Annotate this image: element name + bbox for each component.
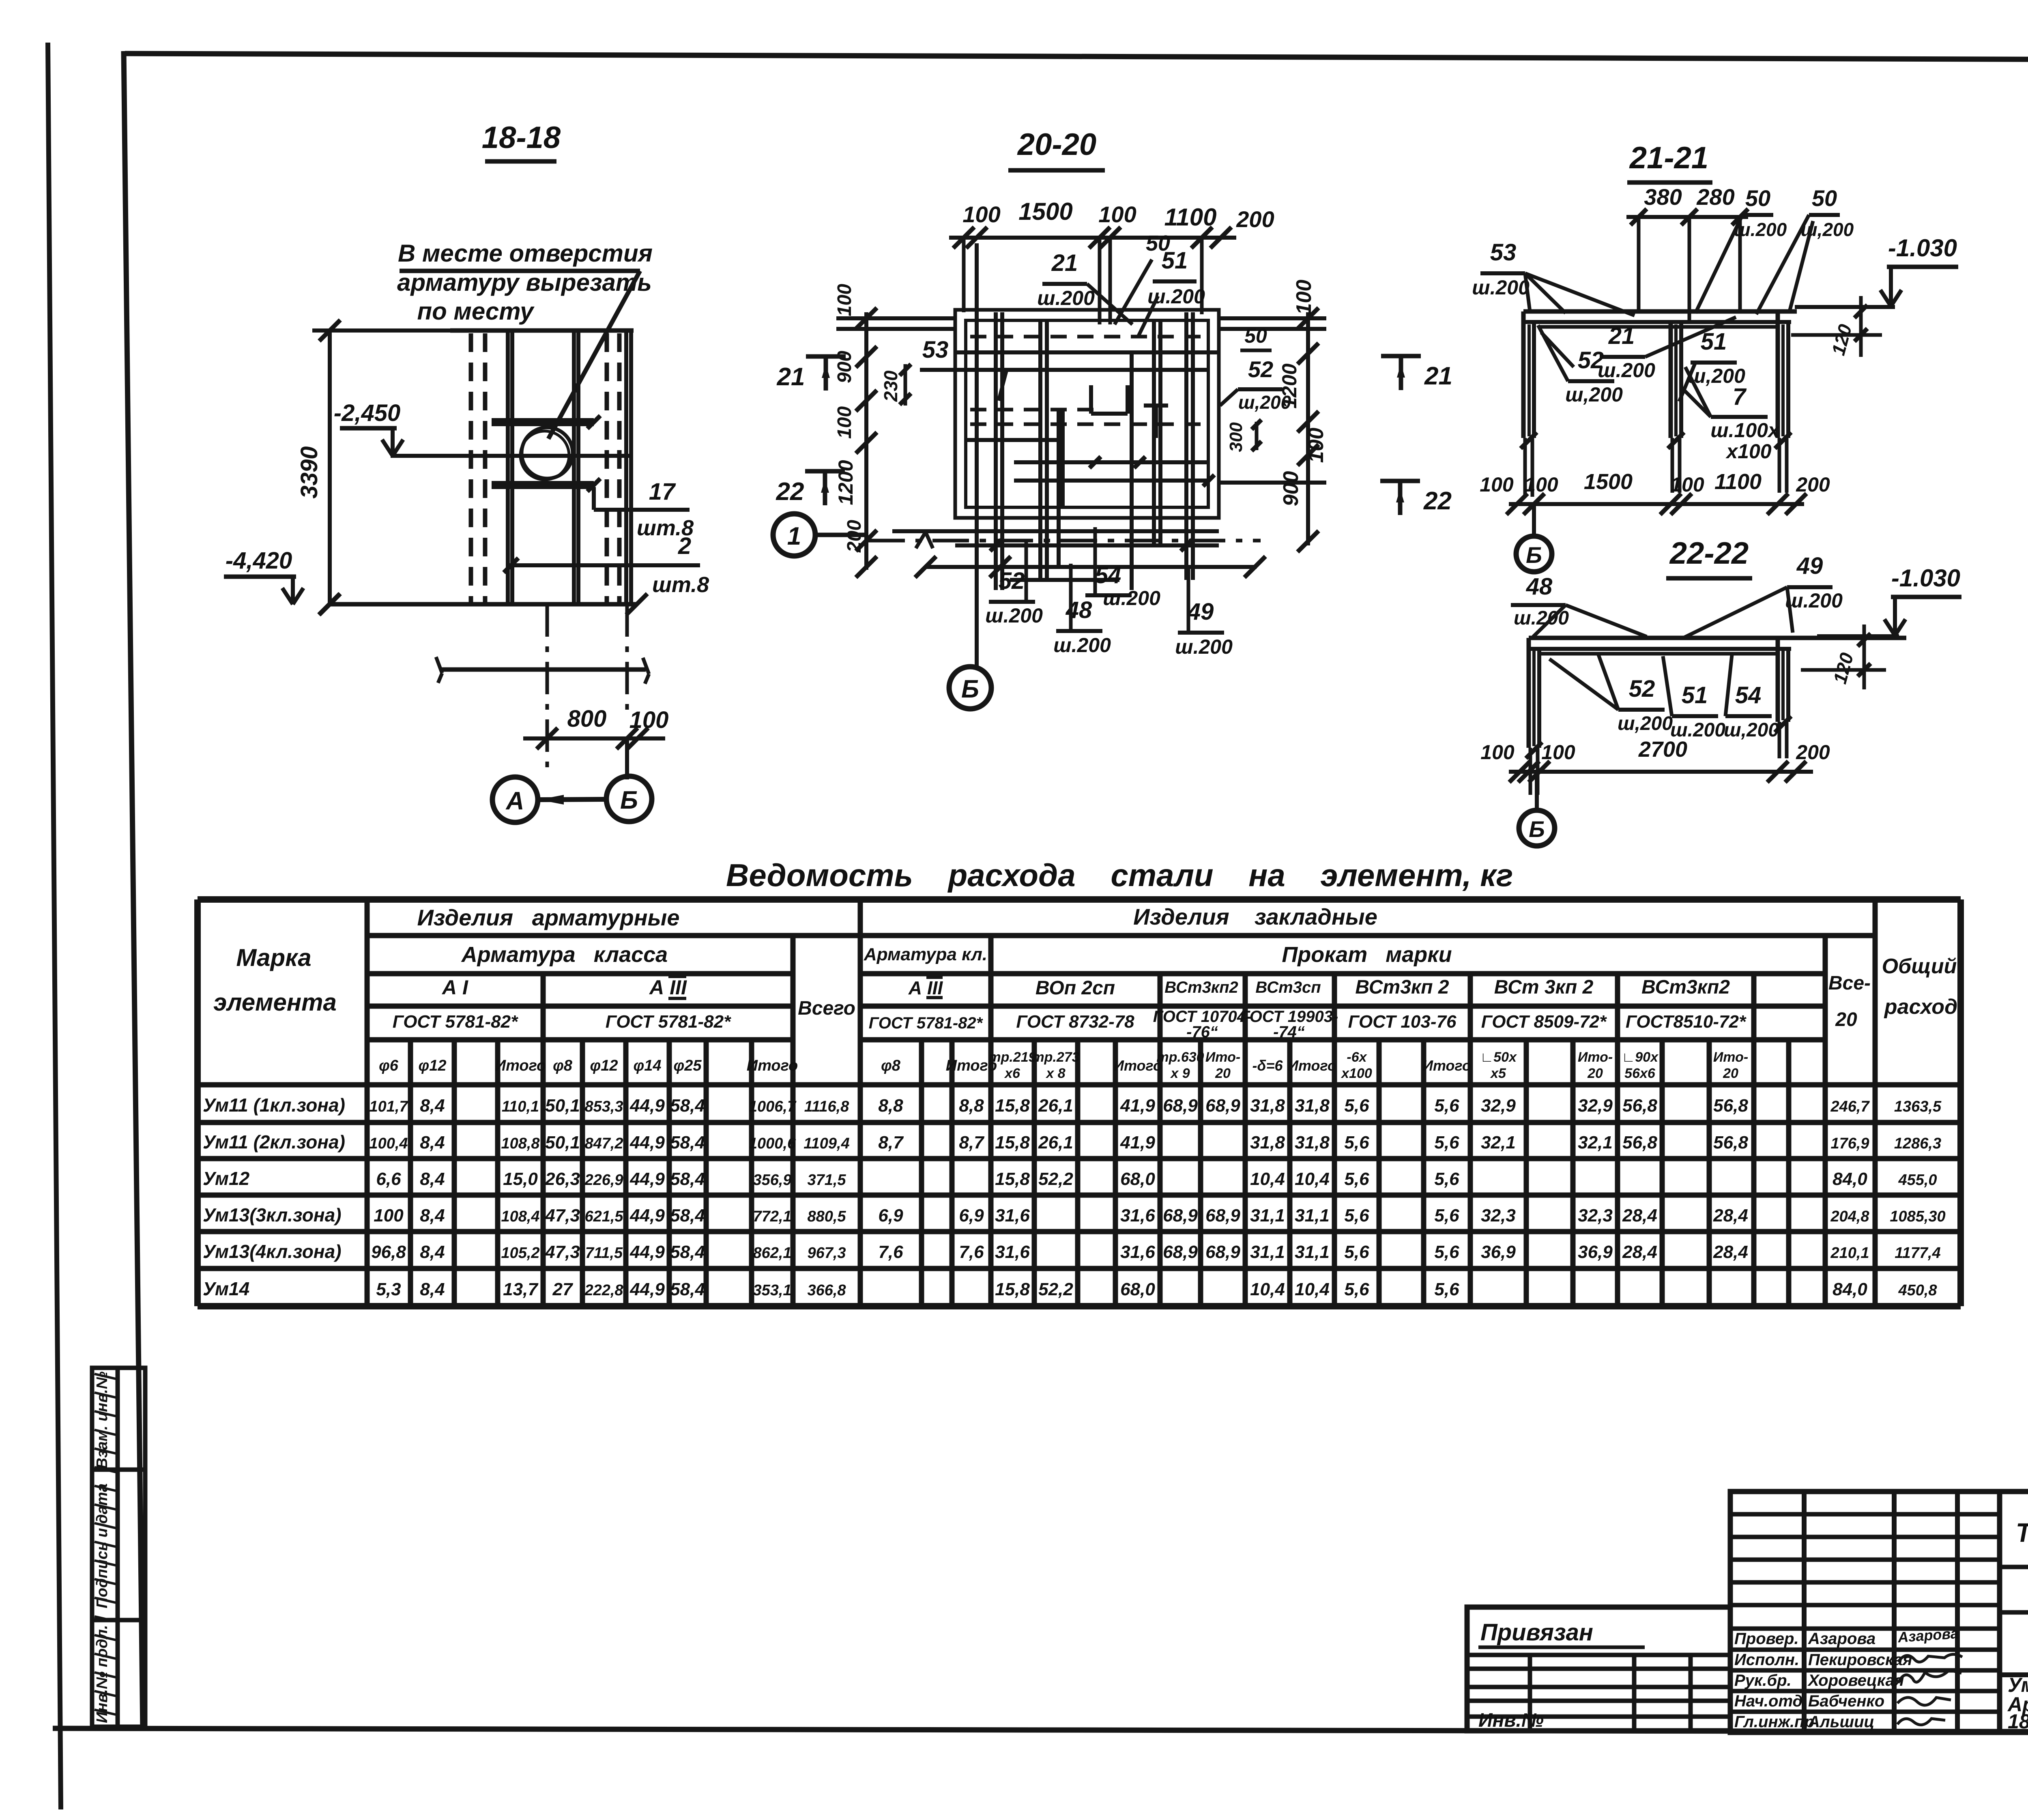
right dim line 20-20 <box>1306 312 1310 545</box>
axis 1 lead <box>815 533 868 537</box>
svg-text:ш.200: ш.200 <box>1472 276 1530 299</box>
svg-text:455,0: 455,0 <box>1898 1172 1937 1189</box>
svg-text:711,5: 711,5 <box>585 1245 623 1262</box>
svg-text:36,9: 36,9 <box>1481 1242 1516 1262</box>
svg-text:1200: 1200 <box>1278 363 1301 408</box>
svg-text:5,6: 5,6 <box>1434 1096 1459 1116</box>
svg-text:49: 49 <box>1187 599 1214 625</box>
svg-text:51: 51 <box>1682 682 1708 708</box>
svg-text:тр.630: тр.630 <box>1156 1050 1204 1065</box>
svg-text:22: 22 <box>776 478 804 506</box>
svg-text:31,6: 31,6 <box>1120 1242 1155 1262</box>
svg-text:366,8: 366,8 <box>807 1282 846 1299</box>
axis circle Б 20-20 <box>949 667 991 709</box>
svg-text:230: 230 <box>880 370 901 402</box>
svg-text:по месту: по месту <box>417 298 535 325</box>
left dim line 20-20 <box>864 312 868 570</box>
svg-text:96,8: 96,8 <box>371 1242 406 1262</box>
svg-text:7,6: 7,6 <box>959 1242 984 1262</box>
svg-text:ГОСТ 103-76: ГОСТ 103-76 <box>1348 1012 1457 1032</box>
svg-text:5,6: 5,6 <box>1434 1169 1459 1189</box>
svg-text:∟90х: ∟90х <box>1622 1050 1659 1065</box>
svg-text:Ито-: Ито- <box>1205 1050 1240 1065</box>
svg-text:222,8: 222,8 <box>584 1282 623 1299</box>
centerline below left <box>546 604 549 773</box>
rebar pair right edge <box>624 332 628 603</box>
svg-text:100: 100 <box>1541 741 1575 764</box>
svg-text:32,9: 32,9 <box>1481 1096 1516 1116</box>
tie bar upper <box>492 418 594 422</box>
svg-text:10,4: 10,4 <box>1295 1169 1330 1189</box>
svg-text:32,9: 32,9 <box>1578 1096 1613 1116</box>
svg-text:φ8: φ8 <box>881 1057 901 1074</box>
wall 18-18 dashed face left b <box>483 333 488 603</box>
svg-text:200: 200 <box>1796 741 1830 764</box>
svg-text:5,6: 5,6 <box>1344 1206 1369 1225</box>
plan band line <box>955 350 1219 354</box>
svg-text:21: 21 <box>1051 250 1078 276</box>
plan rebar h2 <box>1014 479 1209 483</box>
left stamp strip outline <box>92 1368 145 1727</box>
top ext c <box>1200 238 1204 314</box>
right small dim <box>1255 422 1259 450</box>
svg-text:20: 20 <box>1215 1066 1231 1081</box>
svg-text:Ито-: Ито- <box>1713 1050 1748 1065</box>
svg-text:8,4: 8,4 <box>420 1169 445 1189</box>
svg-text:54: 54 <box>1735 682 1762 708</box>
slab 21-21 top line <box>1523 309 1797 314</box>
wall 22-22 left pair <box>1527 638 1531 748</box>
right low line <box>1219 481 1326 485</box>
svg-text:Бабченко: Бабченко <box>1808 1692 1884 1710</box>
svg-text:105,2: 105,2 <box>501 1245 539 1262</box>
svg-text:31,1: 31,1 <box>1295 1206 1330 1225</box>
svg-text:900: 900 <box>1279 471 1303 507</box>
svg-text:68,0: 68,0 <box>1120 1169 1155 1189</box>
svg-text:6,6: 6,6 <box>376 1169 401 1189</box>
svg-text:772,1: 772,1 <box>753 1208 791 1225</box>
svg-text:48: 48 <box>1526 573 1553 600</box>
plan rebar v4 <box>1152 320 1156 543</box>
left stamp strip divider vertical <box>116 1368 120 1727</box>
svg-text:Итого: Итого <box>1422 1057 1471 1074</box>
section mark 22 right <box>1380 479 1420 483</box>
wall 22-22 right pair <box>1776 638 1780 722</box>
svg-text:φ12: φ12 <box>590 1057 618 1074</box>
title block left sub-block grid <box>1467 1607 1730 1731</box>
section mark 22 left <box>805 469 845 474</box>
svg-text:58,4: 58,4 <box>670 1206 705 1225</box>
svg-text:1: 1 <box>787 522 801 550</box>
svg-text:110,1: 110,1 <box>502 1098 539 1115</box>
wall 22-22 left stubs <box>1529 748 1532 795</box>
axis Б riser 20-20 <box>975 243 979 667</box>
svg-text:ВСт3кп2: ВСт3кп2 <box>1641 977 1730 998</box>
hole circle <box>522 427 573 479</box>
wall 21-21 mid pair <box>1669 322 1673 438</box>
svg-text:х 9: х 9 <box>1170 1066 1190 1081</box>
plan rebar v6 <box>1057 410 1061 568</box>
svg-text:Ито-: Ито- <box>1578 1050 1613 1065</box>
svg-text:31,6: 31,6 <box>1120 1206 1155 1225</box>
svg-text:50: 50 <box>1745 185 1770 211</box>
svg-text:68,9: 68,9 <box>1205 1206 1240 1225</box>
svg-text:50: 50 <box>1244 324 1267 347</box>
wall 21-21 left stubs <box>1523 438 1527 497</box>
drawing frame bottom edge <box>53 1728 2028 1732</box>
svg-text:52: 52 <box>999 568 1025 594</box>
axis Б 21-21 <box>1516 536 1552 572</box>
svg-text:Нач.отд: Нач.отд <box>1734 1692 1802 1710</box>
table data values <box>203 1095 1946 1299</box>
svg-text:-1.030: -1.030 <box>1888 234 1957 262</box>
svg-text:20: 20 <box>1587 1066 1603 1081</box>
title block role names <box>1734 1630 1912 1731</box>
svg-text:-4,420: -4,420 <box>226 547 292 574</box>
svg-text:ш.200: ш.200 <box>1103 587 1160 610</box>
svg-text:3390: 3390 <box>296 446 322 498</box>
svg-text:Общий: Общий <box>1882 955 1957 978</box>
wall 21-21 right pair <box>1776 311 1780 438</box>
svg-text:Б: Б <box>620 786 638 814</box>
svg-text:100: 100 <box>1480 741 1515 764</box>
plan top dashed <box>970 335 1204 339</box>
svg-text:х100: х100 <box>1341 1066 1372 1081</box>
svg-text:853,3: 853,3 <box>584 1098 623 1115</box>
svg-text:56,8: 56,8 <box>1622 1133 1657 1153</box>
svg-text:ш.200: ш.200 <box>1053 634 1111 657</box>
svg-text:84,0: 84,0 <box>1833 1279 1867 1299</box>
svg-text:ГОСТ 5781-82*: ГОСТ 5781-82* <box>393 1012 518 1032</box>
svg-text:44,9: 44,9 <box>629 1242 665 1262</box>
svg-text:Изделия закладные: Изделия закладные <box>1133 904 1377 929</box>
svg-text:52: 52 <box>1629 676 1655 702</box>
svg-text:10,4: 10,4 <box>1250 1279 1285 1299</box>
svg-text:Ум14: Ум14 <box>203 1278 249 1299</box>
svg-text:шт.8: шт.8 <box>652 573 709 597</box>
svg-text:44,9: 44,9 <box>629 1206 665 1225</box>
svg-text:450,8: 450,8 <box>1898 1282 1937 1299</box>
svg-text:1200: 1200 <box>834 460 857 505</box>
svg-text:7,6: 7,6 <box>878 1242 903 1262</box>
svg-text:47,3: 47,3 <box>545 1206 580 1225</box>
svg-text:φ6: φ6 <box>379 1057 399 1074</box>
axis 1 circle <box>773 514 815 556</box>
dim 380-280 line <box>1626 215 1748 219</box>
svg-text:-6х: -6х <box>1347 1050 1367 1065</box>
svg-text:Альшиц: Альшиц <box>1808 1713 1874 1731</box>
svg-text:120: 120 <box>1827 322 1856 358</box>
svg-text:х5: х5 <box>1490 1066 1506 1081</box>
break mark left <box>436 657 442 673</box>
svg-text:56,8: 56,8 <box>1713 1096 1748 1116</box>
bottom dim line 21-21 <box>1509 502 1804 506</box>
svg-text:ГОСТ 8509-72*: ГОСТ 8509-72* <box>1481 1012 1607 1032</box>
svg-text:1100: 1100 <box>1714 470 1762 494</box>
svg-text:68,0: 68,0 <box>1120 1279 1155 1299</box>
svg-text:800: 800 <box>567 706 607 732</box>
svg-text:ГОСТ 8732-78: ГОСТ 8732-78 <box>1016 1012 1134 1032</box>
svg-text:100: 100 <box>629 707 669 733</box>
svg-text:1116,8: 1116,8 <box>804 1098 849 1115</box>
svg-text:22-22: 22-22 <box>1669 536 1749 571</box>
svg-text:68,9: 68,9 <box>1163 1242 1198 1262</box>
svg-text:Исполн.: Исполн. <box>1734 1651 1799 1669</box>
svg-text:15,8: 15,8 <box>995 1096 1030 1116</box>
plan inner rect <box>966 320 1208 507</box>
svg-text:8,4: 8,4 <box>420 1096 445 1116</box>
svg-text:31,6: 31,6 <box>995 1206 1030 1225</box>
svg-text:ш.200: ш.200 <box>1037 287 1095 309</box>
svg-text:5,6: 5,6 <box>1434 1279 1459 1299</box>
svg-text:тр.219: тр.219 <box>988 1050 1036 1065</box>
plan rebar h1 <box>1014 460 1209 464</box>
svg-text:х100: х100 <box>1725 440 1771 463</box>
svg-text:52: 52 <box>1248 356 1273 382</box>
svg-text:7: 7 <box>1733 384 1747 410</box>
svg-text:50,1: 50,1 <box>545 1133 580 1153</box>
svg-text:18-18: 18-18 <box>482 120 561 155</box>
svg-text:Рук.бр.: Рук.бр. <box>1734 1672 1792 1689</box>
svg-text:31,8: 31,8 <box>1250 1133 1285 1153</box>
svg-text:Б: Б <box>1529 816 1545 842</box>
svg-text:1286,3: 1286,3 <box>1894 1135 1941 1152</box>
svg-text:300: 300 <box>1226 422 1246 452</box>
svg-text:1500: 1500 <box>1018 198 1072 225</box>
svg-text:847,2: 847,2 <box>584 1135 623 1152</box>
dim ext 380 <box>1637 217 1641 311</box>
foundation lower line <box>440 667 646 672</box>
svg-text:5,6: 5,6 <box>1434 1133 1459 1153</box>
svg-text:Итого: Итого <box>1113 1057 1162 1074</box>
svg-text:226,9: 226,9 <box>584 1172 623 1189</box>
svg-text:54: 54 <box>1095 562 1121 588</box>
svg-text:Всего: Всего <box>798 998 855 1019</box>
wall 18-18 dashed face right a <box>605 333 609 603</box>
svg-text:1006,7: 1006,7 <box>749 1098 797 1115</box>
svg-text:31,8: 31,8 <box>1295 1133 1330 1153</box>
section mark 21 right <box>1381 354 1421 358</box>
top dim line 20-20 <box>949 236 1236 240</box>
svg-text:100: 100 <box>834 284 855 316</box>
svg-text:Ум12: Ум12 <box>203 1168 250 1189</box>
svg-text:10,4: 10,4 <box>1295 1279 1330 1299</box>
plan step detail 1 <box>1089 385 1093 414</box>
wall 21-21 mid stubs <box>1671 438 1674 493</box>
svg-text:1000,6: 1000,6 <box>749 1135 796 1152</box>
wall 18-18 dashed face right b <box>617 333 622 603</box>
svg-text:Ведомость расхода стали: Ведомость расхода стали на элемент, кг <box>726 857 1513 893</box>
svg-text:56х6: 56х6 <box>1624 1066 1656 1081</box>
svg-text:φ8: φ8 <box>553 1057 573 1074</box>
svg-text:Все-: Все- <box>1828 972 1871 994</box>
svg-text:ГОСТ 5781-82*: ГОСТ 5781-82* <box>606 1012 731 1032</box>
svg-text:Изделия арматурные: Изделия арматурные <box>417 905 680 930</box>
svg-text:880,5: 880,5 <box>807 1208 846 1225</box>
svg-text:210,1: 210,1 <box>1830 1245 1869 1262</box>
svg-text:Гл.инж.пр: Гл.инж.пр <box>1734 1713 1814 1731</box>
svg-text:ш.200: ш.200 <box>1598 359 1655 382</box>
note leader diagonal <box>548 271 640 439</box>
svg-text:58,4: 58,4 <box>670 1096 705 1116</box>
note underline <box>400 269 640 273</box>
svg-text:Пекировская: Пекировская <box>1808 1651 1912 1669</box>
svg-text:53: 53 <box>922 337 949 363</box>
plan rebar v3 <box>1130 352 1134 590</box>
slab 22-22 inner <box>1541 652 1778 656</box>
svg-text:100: 100 <box>1292 280 1316 315</box>
svg-text:50,1: 50,1 <box>545 1096 580 1116</box>
svg-text:5,6: 5,6 <box>1344 1169 1369 1189</box>
svg-text:Арматура кл.: Арматура кл. <box>864 944 987 964</box>
svg-text:621,5: 621,5 <box>584 1208 623 1225</box>
svg-text:ВСт3кп2: ВСт3кп2 <box>1164 979 1238 996</box>
svg-text:ВСт 3кп 2: ВСт 3кп 2 <box>1494 977 1594 998</box>
svg-text:58,4: 58,4 <box>670 1169 705 1189</box>
level line -2450 <box>391 454 633 458</box>
svg-text:5,6: 5,6 <box>1344 1096 1369 1116</box>
plan lattice h3 <box>892 529 1219 533</box>
svg-text:371,5: 371,5 <box>807 1172 846 1189</box>
svg-text:ш,200: ш,200 <box>1565 383 1623 406</box>
svg-text:47,3: 47,3 <box>545 1242 580 1262</box>
svg-text:21: 21 <box>777 363 805 391</box>
svg-text:52,2: 52,2 <box>1038 1279 1073 1299</box>
plan lattice h4 <box>955 543 1219 547</box>
slab 21-21 bottom line <box>1523 320 1791 324</box>
svg-text:100,4: 100,4 <box>369 1135 408 1152</box>
svg-text:100: 100 <box>374 1206 404 1225</box>
wall 21-21 left pair <box>1521 311 1526 438</box>
title block signatures <box>1897 1625 1962 1725</box>
svg-text:100: 100 <box>1524 473 1558 496</box>
plan mid dashed 2 <box>970 423 1201 426</box>
svg-text:52: 52 <box>1578 347 1604 373</box>
svg-text:21: 21 <box>1424 362 1452 390</box>
svg-text:68,9: 68,9 <box>1205 1096 1240 1116</box>
top ext line a <box>962 238 966 312</box>
svg-text:862,1: 862,1 <box>753 1245 791 1262</box>
svg-text:967,3: 967,3 <box>807 1245 846 1262</box>
break tick bottom line <box>319 594 340 615</box>
slab 22-22 bottom line <box>1529 647 1791 651</box>
svg-text:280: 280 <box>1696 184 1734 210</box>
svg-text:84,0: 84,0 <box>1833 1169 1867 1189</box>
svg-text:22: 22 <box>1423 487 1452 515</box>
svg-text:Ум13(4кл.зона): Ум13(4кл.зона) <box>203 1241 342 1262</box>
plan lattice h5 <box>1010 578 1119 582</box>
svg-text:18-18÷21-21.: 18-18÷21-21. <box>2008 1710 2028 1733</box>
dim 800-100 line <box>523 736 665 740</box>
svg-text:8,4: 8,4 <box>420 1133 445 1153</box>
svg-text:х 8: х 8 <box>1045 1066 1065 1081</box>
svg-text:5,6: 5,6 <box>1344 1279 1369 1299</box>
svg-text:26,1: 26,1 <box>1038 1096 1073 1116</box>
plan mid dashed 1 <box>970 408 1095 412</box>
rebar pair left <box>506 332 510 603</box>
svg-text:Инв.№: Инв.№ <box>1478 1710 1544 1731</box>
svg-text:20: 20 <box>1835 1009 1857 1030</box>
svg-text:Итого: Итого <box>1288 1057 1336 1074</box>
plan rebar v5 <box>1184 312 1188 580</box>
wall ties left <box>1521 432 1537 449</box>
plan outer rect <box>955 310 1219 518</box>
svg-text:31,8: 31,8 <box>1250 1096 1285 1116</box>
left stamp strip divider row2 <box>92 1618 145 1623</box>
svg-text:108,4: 108,4 <box>501 1208 539 1225</box>
drawing frame top edge <box>125 54 2028 61</box>
svg-text:31,1: 31,1 <box>1250 1206 1285 1225</box>
svg-text:41,9: 41,9 <box>1120 1133 1155 1153</box>
svg-text:А: А <box>505 787 524 815</box>
plan step detail 2 <box>1144 403 1168 408</box>
svg-text:51: 51 <box>1162 247 1188 274</box>
svg-text:68,9: 68,9 <box>1163 1096 1198 1116</box>
svg-text:х6: х6 <box>1004 1066 1020 1081</box>
svg-text:-1.030: -1.030 <box>1891 564 1960 592</box>
svg-text:1100: 1100 <box>1164 204 1216 231</box>
svg-text:52,2: 52,2 <box>1038 1169 1073 1189</box>
svg-text:Марка: Марка <box>236 944 311 971</box>
svg-text:100: 100 <box>962 202 1000 227</box>
svg-text:ТП А-II-600-338.86 -КЖ-альбо: ТП А-II-600-338.86 -КЖ-альбомIвып.2 <box>2016 1517 2028 1547</box>
svg-text:68,9: 68,9 <box>1205 1242 1240 1262</box>
svg-text:100: 100 <box>1304 428 1328 463</box>
break mark right <box>643 658 649 674</box>
wall 18-18 dashed face left a <box>469 333 473 603</box>
svg-text:ш.200: ш.200 <box>1175 635 1233 658</box>
tie bar lower <box>492 481 594 485</box>
svg-text:1177,4: 1177,4 <box>1895 1245 1940 1262</box>
axis link arrow <box>538 799 606 800</box>
svg-text:58,4: 58,4 <box>670 1133 705 1153</box>
svg-text:ВОп 2сп: ВОп 2сп <box>1035 977 1115 999</box>
svg-text:10,4: 10,4 <box>1250 1169 1285 1189</box>
svg-text:А III: А III <box>649 976 687 999</box>
svg-text:246,7: 246,7 <box>1830 1098 1870 1115</box>
axis Б riser <box>625 738 629 779</box>
svg-text:1363,5: 1363,5 <box>1894 1098 1942 1115</box>
page border outer thin left line <box>48 43 61 1809</box>
svg-text:56,8: 56,8 <box>1622 1096 1657 1116</box>
wall 18-18 bottom edge <box>329 602 637 607</box>
plan rebar h0 <box>966 368 1208 372</box>
svg-text:68,9: 68,9 <box>1163 1206 1198 1225</box>
table header texts <box>213 904 1957 1081</box>
svg-text:Хоровецкая: Хоровецкая <box>1807 1672 1904 1689</box>
svg-text:8,8: 8,8 <box>878 1096 903 1116</box>
plan rebar v2 <box>1038 320 1042 580</box>
svg-text:-δ=6: -δ=6 <box>1252 1057 1283 1074</box>
svg-text:-74“: -74“ <box>1273 1023 1305 1041</box>
title block middle grid <box>1730 1492 2000 1732</box>
svg-text:49: 49 <box>1796 553 1823 579</box>
svg-text:32,3: 32,3 <box>1481 1206 1516 1225</box>
svg-text:Итого: Итого <box>747 1057 798 1074</box>
svg-text:44,9: 44,9 <box>629 1169 665 1189</box>
section mark 21 left <box>806 354 846 359</box>
svg-text:36,9: 36,9 <box>1578 1242 1613 1262</box>
svg-text:Прокат марки: Прокат марки <box>1282 942 1452 967</box>
svg-text:100: 100 <box>1098 202 1136 227</box>
svg-text:200: 200 <box>1796 473 1830 496</box>
svg-text:108,8: 108,8 <box>501 1135 540 1152</box>
svg-text:100: 100 <box>1480 473 1514 496</box>
svg-text:2: 2 <box>678 533 691 559</box>
svg-text:28,4: 28,4 <box>1622 1242 1657 1262</box>
svg-text:31,1: 31,1 <box>1250 1242 1285 1262</box>
svg-text:44,9: 44,9 <box>629 1133 665 1153</box>
